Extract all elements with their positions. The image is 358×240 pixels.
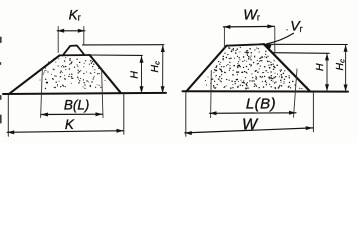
dimension B(L) extension lines — [41, 67, 103, 117]
left figure right slope — [90, 55, 121, 93]
arrowheads B(L) — [41, 113, 48, 117]
dimension W extension lines — [186, 93, 314, 137]
svg-text:H: H — [314, 63, 326, 71]
svg-text:K: K — [65, 117, 75, 132]
svg-text:Kг: Kг — [69, 7, 82, 22]
right figure baseline — [183, 90, 349, 92]
svg-text:Wг: Wг — [243, 7, 261, 23]
dimension H line right figure — [326, 54, 328, 91]
arrowheads Kg — [57, 29, 64, 33]
speck near Vg — [286, 29, 287, 30]
dimension H line left figure — [141, 57, 143, 93]
svg-text:W: W — [242, 117, 259, 134]
dimension B(L) line — [41, 113, 103, 115]
arrowheads L(B) — [210, 111, 217, 115]
dimension Wg extension lines — [224, 27, 274, 52]
dimension L(B) extension lines — [211, 69, 297, 118]
arrowheads H right — [325, 53, 329, 60]
arrowheads Hc left — [161, 45, 165, 52]
svg-text:Hс: Hс — [334, 59, 347, 71]
right figure right slope — [264, 44, 310, 91]
left figure peak cap — [63, 46, 85, 56]
left figure chord extension to H line — [90, 54, 143, 56]
arrowheads K — [7, 130, 14, 134]
arrowheads Hc right — [344, 45, 348, 52]
svg-text:H: H — [129, 71, 141, 79]
svg-text:Hс: Hс — [149, 61, 162, 73]
right figure top reference line — [265, 43, 348, 45]
dimension Kg line — [57, 30, 85, 32]
arrowheads W — [185, 131, 192, 135]
svg-text:B(L): B(L) — [64, 97, 90, 112]
left figure top chord — [60, 54, 90, 56]
left figure left slope — [10, 55, 60, 93]
right figure top edge — [227, 44, 264, 46]
leader Vg — [267, 33, 294, 44]
left figure top reference line — [83, 44, 164, 46]
dimension Hc line right figure — [345, 45, 347, 91]
right figure second reference line — [272, 52, 329, 55]
dimension K line — [7, 131, 123, 133]
right figure left slope — [187, 46, 227, 91]
dimension Wg line — [223, 25, 274, 28]
dimension Kg extension lines — [58, 27, 84, 53]
svg-text:L(B): L(B) — [246, 96, 276, 113]
dimension L(B) line — [210, 112, 297, 115]
arrowheads H left — [140, 56, 144, 63]
dimension Hc line left figure — [162, 46, 164, 93]
stipple right bead — [205, 47, 308, 90]
svg-text:Vг: Vг — [290, 17, 303, 34]
dimension W line — [185, 128, 313, 133]
arrowhead Vg leader — [264, 44, 271, 49]
stipple left bead — [40, 57, 106, 89]
dimension K extension lines — [8, 94, 124, 136]
scan specks left edge — [0, 37, 2, 124]
arrowheads Wg — [223, 25, 230, 29]
left figure baseline — [3, 93, 166, 94]
